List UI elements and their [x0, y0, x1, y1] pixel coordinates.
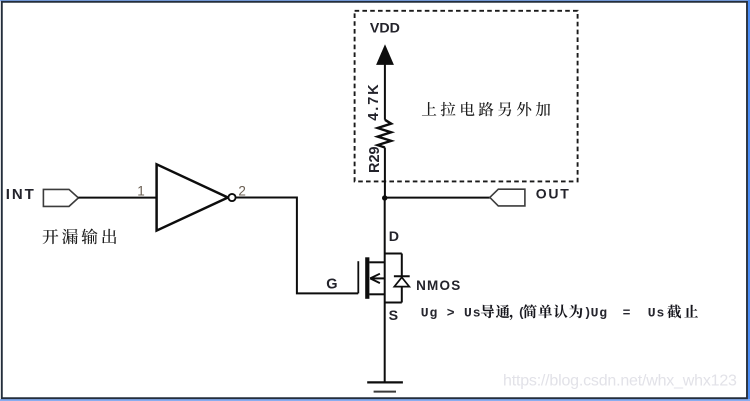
svg-text:D: D — [389, 229, 399, 245]
svg-text:https://blog.csdn.net/whx_whx1: https://blog.csdn.net/whx_whx123 — [503, 373, 737, 390]
svg-text:G: G — [326, 276, 337, 292]
port connector OUT — [490, 189, 525, 206]
wire source to ground — [384, 303, 386, 383]
dashed box: external pull-up circuit — [355, 11, 578, 182]
svg-text:4.7K: 4.7K — [366, 82, 382, 120]
svg-text:OUT: OUT — [536, 185, 571, 201]
annotation: Ug > Us 导通 ... — [421, 304, 698, 320]
svg-text:S: S — [389, 308, 398, 324]
svg-text:INT: INT — [6, 186, 36, 203]
wire inverter output to NMOS gate — [235, 198, 358, 294]
body diode of NMOS — [385, 254, 410, 303]
svg-text:R29: R29 — [367, 146, 383, 173]
label 开漏输出 (open-drain output) — [43, 229, 117, 245]
resistor R29 zigzag — [378, 120, 392, 148]
svg-text:1: 1 — [137, 183, 145, 198]
ground symbol — [367, 382, 403, 391]
svg-text:Us: Us — [648, 305, 665, 320]
wire node to drain — [384, 198, 386, 254]
svg-text:Ug > Us: Ug > Us — [421, 305, 482, 320]
port connector INT — [43, 189, 78, 206]
wire node to OUT port — [385, 197, 490, 199]
inverter U1 triangle — [157, 164, 228, 230]
svg-text:Ug: Ug — [591, 305, 608, 320]
junction node dot — [382, 195, 387, 200]
wire INT to inverter input — [78, 197, 156, 199]
inverter output bubble — [228, 194, 235, 201]
svg-text:VDD: VDD — [370, 21, 400, 37]
svg-text:2: 2 — [238, 183, 246, 198]
svg-text:=: = — [623, 305, 631, 320]
label 上拉电路另外加 (pull-up circuit added externally) — [422, 102, 550, 116]
wire resistor to node — [384, 148, 386, 199]
svg-text:NMOS: NMOS — [416, 278, 461, 293]
VDD arrow symbol — [376, 44, 394, 65]
wire VDD to resistor — [384, 64, 386, 120]
transistor Q1 NMOS symbol — [358, 254, 384, 303]
